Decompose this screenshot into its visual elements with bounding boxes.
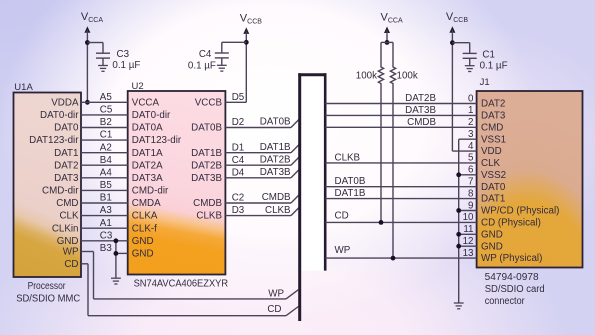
svg-text:0.1 µF: 0.1 µF [480, 61, 508, 72]
svg-text:DAT3B: DAT3B [260, 167, 291, 178]
svg-text:DAT1: DAT1 [481, 194, 505, 205]
svg-text:DAT0: DAT0 [54, 123, 79, 134]
wire U2 DAT2B to bar [225, 164, 291, 166]
capacitor C4 [221, 42, 223, 53]
node junction GND C3 [114, 238, 119, 243]
svg-text:0.1 µF: 0.1 µF [188, 61, 216, 72]
svg-text:B2: B2 [100, 117, 112, 128]
svg-text:U1A: U1A [14, 82, 33, 93]
wire U2 DAT0B to bar [225, 127, 291, 129]
svg-text:CMD-dir: CMD-dir [132, 186, 169, 197]
wire U1A to U2 row A3 [81, 215, 128, 217]
wire U1A to U2 row C5 [81, 114, 128, 116]
svg-text:0: 0 [468, 93, 474, 104]
ground symbol below J1 [454, 302, 464, 304]
wire CD stub from U1A [81, 263, 88, 265]
wire CLKB bus entry diagonal [291, 207, 299, 216]
svg-text:CLKB: CLKB [335, 152, 361, 163]
svg-text:WP: WP [268, 288, 284, 299]
svg-text:GND: GND [481, 229, 503, 240]
wire J1 pin 12 GND stub [459, 245, 477, 247]
svg-text:WP: WP [63, 247, 79, 258]
wire CD to J1 pin 10 [325, 221, 476, 223]
svg-text:A2: A2 [100, 142, 112, 153]
wire DAT3B bus entry diagonal [291, 169, 299, 178]
svg-text:DAT3A: DAT3A [132, 173, 163, 184]
svg-text:C5: C5 [100, 105, 113, 116]
wire U2 DAT1B to bar [225, 152, 291, 154]
node junction pin 11 ground [456, 232, 461, 237]
svg-text:CLK: CLK [59, 211, 79, 222]
wire VCCA arrow stem [386, 35, 388, 43]
svg-text:C4: C4 [199, 49, 212, 60]
svg-text:DAT0A: DAT0A [132, 123, 163, 134]
svg-text:CD: CD [64, 259, 78, 270]
svg-text:VCCA: VCCA [132, 97, 160, 108]
svg-text:GND: GND [132, 236, 154, 247]
svg-text:VCCB: VCCB [240, 12, 262, 25]
svg-text:B5: B5 [100, 180, 113, 191]
wire WP stub from U1A [81, 251, 94, 253]
svg-text:C1: C1 [482, 50, 495, 61]
wire CD bus entry diagonal [286, 307, 298, 316]
svg-text:connector: connector [485, 296, 526, 307]
wire DAT3B to J1 pin 1 [325, 114, 476, 116]
svg-text:D4: D4 [232, 167, 245, 178]
svg-text:D2: D2 [232, 117, 245, 128]
svg-text:DAT3: DAT3 [54, 173, 79, 184]
svg-text:CMDA: CMDA [132, 198, 161, 209]
svg-text:DAT1B: DAT1B [260, 142, 291, 153]
svg-text:C2: C2 [232, 193, 245, 204]
svg-text:DAT0-dir: DAT0-dir [132, 110, 171, 121]
wire U1A to U2 row A4 [81, 177, 128, 179]
svg-text:6: 6 [468, 165, 474, 176]
svg-text:GND: GND [57, 236, 79, 247]
wire CD bottom horizontal [88, 315, 286, 317]
svg-text:CMDB: CMDB [193, 198, 222, 209]
wire U2 CMDB to bar [225, 202, 291, 204]
node junction pin 12 ground [456, 244, 461, 249]
svg-text:2: 2 [468, 117, 473, 128]
wire U2 VCCB pin stub [225, 101, 246, 103]
svg-text:CLKB: CLKB [196, 211, 222, 222]
resistor R2 100k (WP pullup) [390, 42, 395, 258]
capacitor C1 [469, 43, 471, 54]
svg-text:9: 9 [468, 200, 473, 211]
connector block J1 (SD/SDIO card connector) [477, 91, 583, 268]
wire DAT2B bus entry diagonal [291, 157, 299, 166]
svg-text:VCCA: VCCA [381, 12, 403, 25]
svg-text:DAT0B: DAT0B [191, 123, 222, 134]
svg-text:100k: 100k [356, 71, 377, 82]
node junction WP pullup [391, 256, 396, 261]
svg-text:SN74AVCA406EZXYR: SN74AVCA406EZXYR [134, 279, 229, 290]
node junction resistor tie [385, 40, 390, 45]
board interface bar top edge [298, 73, 326, 76]
svg-text:DAT1B: DAT1B [335, 188, 366, 199]
IC block U2 (SN74AVCA406E level translator) [128, 91, 226, 275]
svg-text:GND: GND [132, 249, 154, 260]
svg-text:A1: A1 [100, 218, 112, 229]
wire U1A to U2 row B1 [81, 202, 128, 204]
wire DAT0B to J1 pin 7 [325, 186, 476, 188]
svg-text:DAT1: DAT1 [54, 148, 78, 159]
wire U1A to U2 row C3 [81, 240, 128, 242]
wire WP bus entry diagonal [286, 290, 298, 299]
svg-text:DAT0-dir: DAT0-dir [40, 110, 79, 121]
node junction VCCB/C1 [450, 40, 455, 45]
svg-text:C3: C3 [117, 49, 130, 60]
svg-text:SD/SDIO card: SD/SDIO card [485, 284, 545, 295]
svg-text:12: 12 [463, 236, 474, 247]
node junction VCCA/C3 [85, 40, 90, 45]
svg-text:DAT2B: DAT2B [260, 154, 291, 165]
svg-text:J1: J1 [480, 77, 490, 88]
wire U2 CLKB to bar [225, 215, 291, 217]
wire U1A to U2 row B5 [81, 189, 128, 191]
svg-text:11: 11 [463, 224, 473, 235]
node junction GND B3 [114, 251, 119, 256]
svg-text:VCCA: VCCA [81, 11, 103, 24]
svg-text:A3: A3 [100, 205, 113, 216]
power symbol VCCB (right) [449, 26, 455, 33]
wire U1A to U2 row A1 [81, 227, 128, 229]
svg-text:VSS2: VSS2 [481, 170, 506, 181]
svg-text:CLKB: CLKB [265, 205, 291, 216]
wire J1 pin 3 VSS1 stub [459, 138, 477, 140]
svg-text:VSS1: VSS1 [481, 134, 506, 145]
wire VCCB to VDD pin 4 horizontal [452, 150, 476, 152]
svg-text:DAT2B: DAT2B [191, 160, 222, 171]
power symbol VCCA (right) [384, 27, 390, 34]
wire DAT0B bus entry diagonal [291, 119, 299, 128]
svg-text:B4: B4 [100, 155, 113, 166]
svg-text:C3: C3 [100, 230, 113, 241]
node junction VCCA/VDDA wire [85, 100, 90, 105]
wire DAT1B bus entry diagonal [291, 144, 299, 153]
svg-text:C4: C4 [232, 155, 245, 166]
svg-text:CMD: CMD [481, 122, 503, 133]
svg-text:CLK-f: CLK-f [132, 223, 157, 234]
node junction pin 9 ground [456, 208, 461, 213]
wire WP vertical [93, 252, 95, 299]
svg-text:WP: WP [335, 245, 351, 256]
board interface bar right edge [324, 73, 327, 270]
svg-text:DAT1B: DAT1B [191, 148, 222, 159]
wire WP bottom horizontal [94, 298, 287, 300]
node junction VCCB/C4 [244, 40, 249, 45]
svg-text:WP/CD (Physical): WP/CD (Physical) [481, 206, 559, 217]
capacitor C3 [102, 43, 104, 54]
svg-text:DAT0B: DAT0B [335, 176, 366, 187]
svg-text:13: 13 [463, 248, 474, 259]
svg-text:C1: C1 [100, 130, 113, 141]
svg-text:D5: D5 [232, 92, 245, 103]
svg-text:A4: A4 [100, 167, 113, 178]
svg-text:SD/SDIO MMC: SD/SDIO MMC [16, 294, 80, 305]
svg-text:DAT3: DAT3 [481, 111, 506, 122]
svg-text:CMDB: CMDB [407, 117, 436, 128]
wire DAT1B to J1 pin 8 [325, 198, 476, 200]
svg-text:CD: CD [267, 304, 281, 315]
svg-text:CD: CD [335, 210, 349, 221]
wire C4 branch [222, 41, 247, 43]
wire VCCA supply vertical [86, 35, 88, 103]
svg-text:U2: U2 [132, 81, 144, 92]
svg-text:CLKin: CLKin [52, 223, 79, 234]
resistor R1 100k (CD pullup) [378, 42, 383, 222]
wire U1A to U2 row A5 [81, 101, 128, 103]
svg-text:7: 7 [468, 177, 473, 188]
svg-text:DAT0B: DAT0B [260, 117, 291, 128]
svg-text:DAT2: DAT2 [54, 160, 78, 171]
wire J1 pin 11 GND stub [459, 233, 477, 235]
wire CD vertical [87, 264, 89, 316]
wire C1 branch [452, 42, 469, 44]
svg-text:4: 4 [468, 141, 474, 152]
svg-text:54794-0978: 54794-0978 [485, 272, 539, 283]
svg-text:CD (Physical): CD (Physical) [481, 218, 541, 229]
ground symbol below U2 [111, 277, 121, 279]
svg-text:DAT2A: DAT2A [132, 160, 163, 171]
wire U2 DAT3B to bar [225, 177, 291, 179]
wire WP to J1 pin 13 [325, 257, 476, 259]
svg-text:VDD: VDD [481, 146, 502, 157]
wire VCCB riser to U2 VCCB pin [245, 35, 247, 102]
wire DAT2B to J1 pin 0 [325, 103, 476, 105]
svg-text:D3: D3 [232, 205, 245, 216]
wire U1A to U2 row C1 [81, 139, 128, 141]
power symbol VCCA (left) [84, 26, 90, 33]
svg-text:DAT3B: DAT3B [191, 173, 222, 184]
svg-text:DAT123-dir: DAT123-dir [29, 135, 79, 146]
svg-text:Processor: Processor [28, 281, 67, 292]
IC block U1A (processor) [14, 93, 82, 278]
svg-text:DAT1A: DAT1A [132, 148, 163, 159]
svg-text:VCCB: VCCB [195, 97, 223, 108]
wire C3 branch [87, 42, 103, 44]
svg-text:DAT123-dir: DAT123-dir [132, 135, 182, 146]
svg-text:8: 8 [468, 188, 474, 199]
wire U2 GND B3 stub [116, 252, 128, 254]
svg-text:0.1 µF: 0.1 µF [112, 60, 140, 71]
wire J1 pin 6 VSS2 stub [459, 174, 477, 176]
board interface bar interior [300, 75, 326, 271]
svg-text:CLKA: CLKA [132, 211, 158, 222]
svg-text:CLK: CLK [481, 158, 501, 169]
wire J1 pin 9 stub [459, 210, 477, 212]
svg-text:DAT2B: DAT2B [405, 93, 436, 104]
svg-text:3: 3 [468, 129, 474, 140]
svg-text:GND: GND [481, 241, 503, 252]
wire resistor tie bar [381, 41, 393, 43]
svg-text:VCCB: VCCB [446, 11, 468, 24]
wire GND net vertical [115, 241, 117, 278]
svg-text:VDDA: VDDA [51, 97, 79, 108]
node junction CD pullup [379, 220, 384, 225]
svg-text:DAT2: DAT2 [481, 99, 505, 110]
svg-text:DAT3B: DAT3B [405, 105, 436, 116]
board interface bar left edge [298, 73, 301, 321]
wire U1A to U2 row A2 [81, 152, 128, 154]
wire CMDB to J1 pin 2 [325, 126, 476, 128]
node junction VSS2 ground [456, 172, 461, 177]
svg-text:CMDB: CMDB [262, 192, 291, 203]
svg-text:CMD: CMD [56, 198, 78, 209]
wire CLKB to J1 pin 5 [325, 162, 476, 164]
svg-text:WP (Physical): WP (Physical) [481, 253, 542, 264]
wire U1A to U2 row B4 [81, 164, 128, 166]
wire CMDB bus entry diagonal [291, 195, 299, 204]
svg-text:D1: D1 [232, 142, 245, 153]
wire VCCB to VDD pin 4 vertical [451, 33, 453, 151]
svg-text:5: 5 [468, 153, 474, 164]
svg-text:100k: 100k [397, 71, 418, 82]
svg-text:1: 1 [468, 105, 473, 116]
svg-text:10: 10 [463, 212, 474, 223]
wire U1A to U2 row B2 [81, 127, 128, 129]
svg-text:A5: A5 [100, 92, 113, 103]
power symbol VCCB (middle) [243, 27, 249, 34]
svg-text:CMD-dir: CMD-dir [42, 186, 79, 197]
svg-text:DAT0: DAT0 [481, 182, 506, 193]
wire ground net vertical (right) [458, 139, 460, 303]
svg-text:B1: B1 [100, 193, 112, 204]
svg-text:B3: B3 [100, 243, 113, 254]
